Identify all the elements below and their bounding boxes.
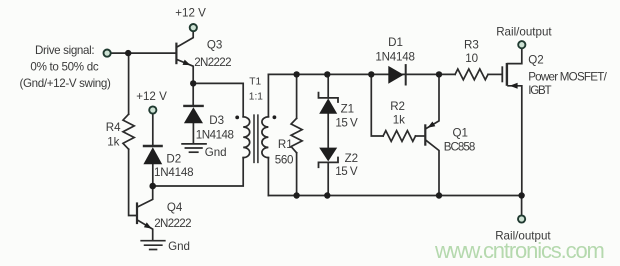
svg-text:Q2: Q2 (528, 54, 543, 67)
svg-text:0% to 50% dc: 0% to 50% dc (30, 61, 98, 74)
svg-text:2N2222: 2N2222 (194, 56, 231, 69)
svg-text:+12 V: +12 V (175, 6, 206, 19)
svg-text:T1: T1 (249, 76, 261, 87)
svg-text:BC858: BC858 (444, 141, 475, 154)
svg-text:D1: D1 (388, 36, 403, 49)
svg-text:R2: R2 (390, 100, 405, 113)
svg-text:Power MOSFET/: Power MOSFET/ (528, 70, 607, 83)
svg-text:1N4148: 1N4148 (196, 129, 234, 142)
svg-text:(Gnd/+12-V swing): (Gnd/+12-V swing) (19, 77, 111, 90)
svg-text:R1: R1 (278, 138, 293, 151)
svg-text:R3: R3 (464, 38, 479, 51)
svg-text:Gnd: Gnd (205, 146, 227, 159)
svg-text:Gnd: Gnd (168, 240, 190, 253)
svg-text:560: 560 (275, 153, 293, 166)
svg-text:Drive signal:: Drive signal: (35, 44, 94, 57)
svg-text:R4: R4 (106, 121, 121, 134)
svg-text:D3: D3 (209, 114, 224, 127)
svg-text:1k: 1k (393, 114, 405, 127)
svg-text:Q3: Q3 (207, 39, 222, 52)
svg-text:1:1: 1:1 (249, 91, 263, 102)
svg-text:IGBT: IGBT (528, 84, 551, 97)
svg-text:Z2: Z2 (345, 152, 359, 165)
svg-text:www.cntronics.com: www.cntronics.com (434, 238, 604, 263)
svg-text:15 V: 15 V (335, 165, 358, 178)
svg-text:1k: 1k (107, 135, 119, 148)
svg-text:1N4148: 1N4148 (375, 50, 414, 63)
svg-text:Q4: Q4 (167, 201, 183, 214)
svg-text:D2: D2 (166, 152, 181, 165)
svg-text:+12 V: +12 V (136, 90, 167, 103)
svg-text:Q1: Q1 (453, 127, 468, 140)
svg-text:2N2222: 2N2222 (154, 217, 191, 230)
svg-text:15 V: 15 V (335, 116, 358, 129)
svg-text:Rail/output: Rail/output (496, 25, 552, 38)
svg-text:Z1: Z1 (341, 103, 355, 116)
svg-text:1N4148: 1N4148 (154, 166, 193, 179)
svg-text:10: 10 (465, 52, 478, 65)
